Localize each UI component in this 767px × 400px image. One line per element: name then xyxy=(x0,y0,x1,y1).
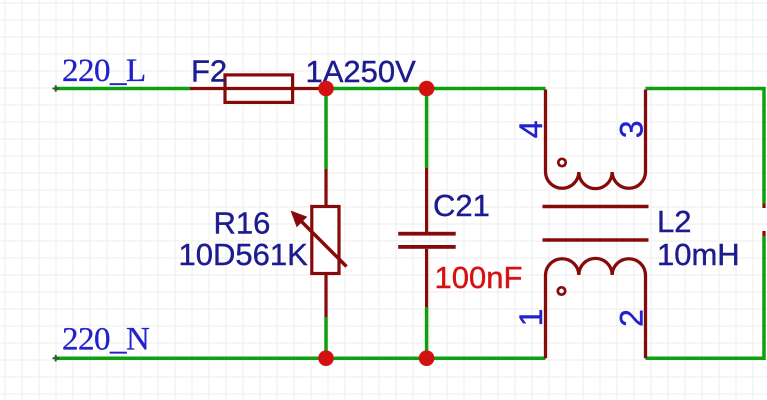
inductor L2 core xyxy=(543,207,649,241)
varistor R16 body xyxy=(312,207,339,274)
svg-text:R16: R16 xyxy=(214,206,271,241)
svg-text:F2: F2 xyxy=(191,54,227,89)
svg-text:100nF: 100nF xyxy=(435,260,523,295)
wire right lower xyxy=(646,236,765,358)
inductor L2 bottom winding with pin 1 and pin 2 leads xyxy=(546,258,646,358)
svg-text:10D561K: 10D561K xyxy=(179,237,309,272)
capacitor C22 lead nubs at right edge xyxy=(762,204,765,237)
junction top at varistor xyxy=(318,81,334,97)
wire stub cross bottom-left xyxy=(53,355,60,362)
svg-text:C21: C21 xyxy=(433,188,490,223)
wire top right xyxy=(646,89,765,204)
wire top middle xyxy=(326,87,546,91)
junction bottom at varistor xyxy=(318,350,334,366)
wire varistor branch top xyxy=(324,89,328,170)
junction bottom at capacitor xyxy=(419,350,435,366)
fuse F2 body xyxy=(225,75,293,103)
svg-text:2: 2 xyxy=(614,309,650,327)
svg-text:10mH: 10mH xyxy=(657,237,740,272)
capacitor C21 lead bottom xyxy=(425,249,428,307)
wire fuse lead (dark red through fuse) xyxy=(190,87,326,90)
inductor L2 bottom polarity dot xyxy=(558,287,565,294)
varistor R16 lead bottom xyxy=(324,272,327,318)
svg-text:L2: L2 xyxy=(657,204,691,239)
varistor R16 arrow xyxy=(291,211,347,267)
inductor L2 top winding with pin 4 and pin 3 leads xyxy=(546,90,646,189)
wire capacitor branch bottom xyxy=(425,307,429,358)
capacitor C21 plates xyxy=(398,232,456,249)
wire varistor branch bottom xyxy=(324,317,328,358)
svg-text:220_L: 220_L xyxy=(62,53,146,89)
varistor R16 lead top xyxy=(324,169,327,208)
junction top at capacitor xyxy=(419,81,435,97)
wire capacitor branch top xyxy=(425,89,429,169)
inductor L2 top polarity dot xyxy=(558,159,565,166)
svg-text:4: 4 xyxy=(513,120,549,138)
capacitor C21 lead top xyxy=(425,168,428,232)
svg-text:220_N: 220_N xyxy=(62,322,150,358)
svg-text:1: 1 xyxy=(513,309,549,327)
wire top-left L rail xyxy=(55,87,190,91)
wire stub cross top-left xyxy=(53,85,60,92)
wire bottom N rail xyxy=(55,356,546,360)
svg-text:3: 3 xyxy=(614,121,650,139)
